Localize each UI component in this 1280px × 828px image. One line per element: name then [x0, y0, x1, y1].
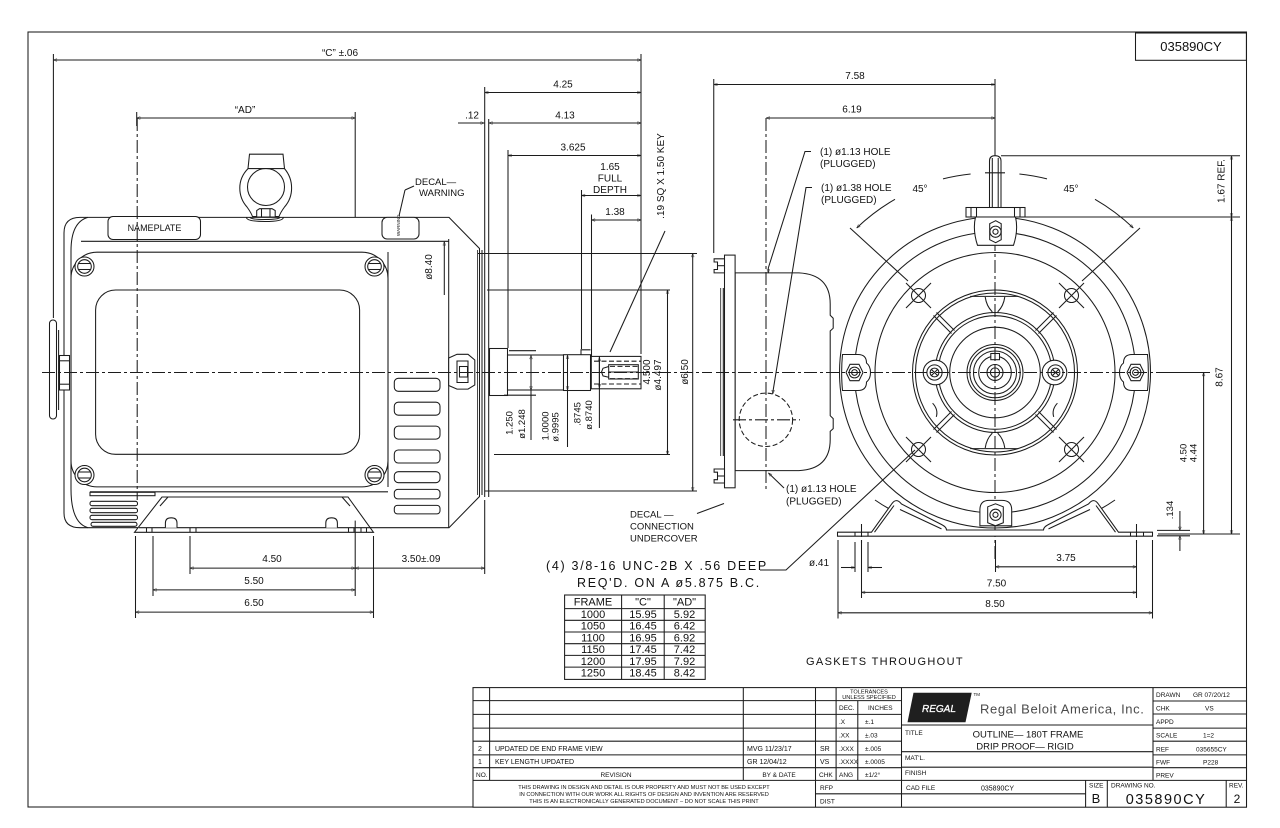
tolerance block — [836, 688, 901, 808]
svg-text:035890CY: 035890CY — [1126, 792, 1207, 808]
dim 45 deg left arc — [943, 174, 971, 179]
svg-text:.XXXX: .XXXX — [839, 759, 859, 766]
svg-text:“AD”: “AD” — [235, 105, 256, 116]
svg-text:TM: TM — [974, 692, 981, 697]
shaft keyway step — [581, 350, 591, 355]
diagonal 45 line NE — [1082, 228, 1140, 281]
side view frame band top line — [81, 240, 449, 242]
svg-text:.134: .134 — [1165, 501, 1176, 520]
cover screw bottom-right — [365, 466, 384, 485]
svg-text:ANG: ANG — [839, 772, 853, 779]
svg-text:REF: REF — [1156, 747, 1169, 754]
svg-text:FWF: FWF — [1156, 760, 1170, 767]
end view diagonal rib 45 NE — [1036, 313, 1057, 334]
logo cell rows — [902, 688, 1154, 781]
lifting eye bolt side view: tab — [248, 154, 285, 168]
svg-text:REGAL: REGAL — [922, 704, 956, 715]
svg-text:INCHES: INCHES — [868, 705, 893, 712]
dim 3.50+-.09 — [355, 567, 485, 569]
svg-text:DEPTH: DEPTH — [593, 185, 627, 196]
dim 1.67 REF — [1001, 155, 1240, 157]
svg-text:DIST: DIST — [820, 799, 835, 806]
svg-text:7.58: 7.58 — [845, 71, 865, 82]
shaft inner circles — [987, 365, 1003, 381]
svg-text:"AD": "AD" — [673, 597, 696, 609]
svg-text:17.95: 17.95 — [629, 656, 657, 668]
conduit box cover plate — [725, 255, 736, 488]
centerline main horizontal — [42, 372, 712, 374]
end view top chord line — [970, 295, 1018, 297]
end view top rib funnel — [985, 297, 1005, 313]
Regal logo parallelogram — [908, 693, 972, 723]
svg-text:DRIP PROOF— RIGID: DRIP PROOF— RIGID — [976, 741, 1074, 752]
base bolt bump right — [326, 518, 338, 528]
shaft keyway notch — [991, 354, 1000, 360]
svg-text:(1) ø1.38 HOLE: (1) ø1.38 HOLE — [821, 183, 892, 194]
svg-text:REVISION: REVISION — [600, 772, 631, 779]
cover opening — [96, 290, 360, 454]
svg-text:±.1: ±.1 — [865, 719, 874, 726]
svg-text:1150: 1150 — [581, 644, 605, 656]
plug screws X 45deg SW — [906, 437, 931, 462]
dim 6.50 bottom — [136, 611, 374, 613]
svg-text:P228: P228 — [1203, 760, 1219, 767]
lug T-bar plate — [966, 208, 1025, 218]
dim .12 (outside arrows) — [458, 122, 484, 124]
svg-text:GR 12/04/12: GR 12/04/12 — [747, 759, 787, 766]
decal warning box on body — [382, 217, 419, 239]
lifting eye bolt side view: base washer ellipse — [246, 217, 283, 221]
end view flange circle — [855, 232, 1136, 513]
svg-text:6.92: 6.92 — [674, 632, 695, 644]
svg-text:8.50: 8.50 — [985, 599, 1005, 610]
svg-text:.19 SQ X 1.50 KEY: .19 SQ X 1.50 KEY — [656, 133, 667, 219]
shaft collar — [490, 349, 508, 396]
diagonal 45 line NW — [850, 228, 908, 281]
bottom extension line right — [1158, 533, 1240, 535]
svg-text:6.19: 6.19 — [842, 105, 862, 116]
svg-text:4.13: 4.13 — [555, 111, 575, 122]
dim 5.50 bottom — [153, 589, 355, 591]
bearing slinger rings — [967, 345, 1023, 401]
dim C +-.06 — [53, 59, 641, 61]
svg-text:3.50±.09: 3.50±.09 — [402, 554, 441, 565]
svg-text:VS: VS — [820, 759, 830, 766]
svg-text:NAMEPLATE: NAMEPLATE — [128, 223, 182, 233]
dim dia 6.50 — [478, 253, 697, 255]
svg-text:1200: 1200 — [581, 656, 605, 668]
conduit box body — [735, 273, 833, 471]
lug bracket — [974, 217, 1016, 245]
svg-text:DRAWN: DRAWN — [1156, 692, 1181, 699]
dim 7.50 — [862, 591, 1137, 593]
svg-text:16.45: 16.45 — [629, 621, 657, 633]
lug T-bar bolt heads — [970, 208, 972, 218]
svg-text:UPDATED DE END FRAME VIEW: UPDATED DE END FRAME VIEW — [495, 746, 603, 753]
svg-text:.12: .12 — [465, 111, 479, 122]
dim 6.19 — [766, 117, 995, 119]
end view boss thick circle — [935, 313, 1055, 433]
drawing number box top right — [1136, 33, 1247, 60]
nameplate box — [108, 217, 201, 240]
conduit box clip top — [714, 259, 724, 273]
svg-text:APPD: APPD — [1156, 719, 1174, 726]
svg-text:8.67: 8.67 — [1215, 367, 1226, 387]
dim 7.58 — [714, 84, 995, 86]
base side view — [135, 497, 374, 532]
lifting eye bolt side view: ring hole — [248, 169, 285, 206]
svg-text:Regal Beloit America, Inc.: Regal Beloit America, Inc. — [980, 702, 1144, 717]
svg-text:DEC.: DEC. — [839, 705, 855, 712]
svg-text:ø6.50: ø6.50 — [680, 359, 691, 385]
svg-text:4.50: 4.50 — [262, 554, 282, 565]
shaft section dia 1.0000 — [564, 355, 591, 391]
svg-text:WARNING: WARNING — [396, 214, 401, 236]
svg-text:45°: 45° — [912, 184, 927, 195]
end view bottom chord line — [970, 448, 1018, 450]
svg-text:NO.: NO. — [476, 772, 488, 779]
bearing inner circle r45 — [950, 327, 1041, 418]
end view circle r120 — [875, 253, 1115, 493]
svg-text:UNDERCOVER: UNDERCOVER — [630, 534, 698, 545]
svg-text:SIZE: SIZE — [1089, 783, 1104, 790]
svg-text:REQ'D. ON A ø5.875 B.C.: REQ'D. ON A ø5.875 B.C. — [577, 576, 761, 590]
svg-text:ø.41: ø.41 — [809, 558, 829, 569]
hex bolt left on flange pad — [842, 355, 871, 391]
svg-text:035890CY: 035890CY — [1160, 39, 1222, 54]
bottom row cells — [1085, 780, 1087, 807]
ODE shaft collar — [60, 356, 70, 391]
plug screws X 45deg NW — [906, 283, 931, 308]
svg-text:8.42: 8.42 — [674, 668, 695, 680]
dim 4.500/4.497 — [487, 289, 670, 291]
svg-text:±1/2°: ±1/2° — [865, 771, 881, 779]
dim 8.50 — [838, 612, 1153, 614]
side view frame band bottom line — [90, 491, 388, 493]
svg-text:(PLUGGED): (PLUGGED) — [821, 195, 877, 206]
svg-text:CHK: CHK — [819, 772, 833, 779]
lug stem — [990, 156, 1002, 208]
lug clamp nut hex — [990, 221, 1002, 243]
end view diagonal rib 45 SW — [934, 412, 955, 433]
cover screw bottom-left — [75, 466, 94, 485]
dim 3.625 — [508, 155, 641, 157]
svg-text:ø1.248: ø1.248 — [517, 409, 528, 439]
hex bolt right on flange pad — [1120, 355, 1149, 391]
svg-text:REV.: REV. — [1229, 783, 1244, 790]
right column cells — [1153, 701, 1247, 768]
end view diagonal rib 45 SE — [1036, 412, 1057, 433]
base plate edge dark band — [90, 492, 155, 495]
svg-text:(1) ø1.13 HOLE: (1) ø1.13 HOLE — [820, 147, 891, 158]
svg-text:DECAL —: DECAL — — [630, 510, 674, 521]
svg-text:1.65: 1.65 — [600, 162, 620, 173]
svg-text:1100: 1100 — [581, 632, 605, 644]
svg-text:±.0005: ±.0005 — [865, 759, 885, 766]
end view vertical centerline — [994, 150, 996, 560]
svg-text:THIS DRAWING IN DESIGN AND DET: THIS DRAWING IN DESIGN AND DETAIL IS OUR… — [518, 785, 770, 791]
DE face plate outer lines — [481, 250, 483, 495]
svg-text:(1) ø1.13 HOLE: (1) ø1.13 HOLE — [786, 484, 857, 495]
svg-text:6.42: 6.42 — [674, 621, 695, 633]
cover screw top-left — [75, 257, 94, 276]
shaft section dia 1.250 — [508, 355, 564, 390]
louvers right panel — [394, 378, 440, 514]
svg-text:1.38: 1.38 — [605, 207, 625, 218]
svg-text:(4) 3/8-16 UNC-2B X .56 DEEP: (4) 3/8-16 UNC-2B X .56 DEEP — [546, 559, 768, 573]
conduit box clip bottom — [714, 469, 724, 483]
key leader line — [610, 231, 665, 352]
end view face notch lower-right — [1053, 403, 1057, 417]
svg-text:(PLUGGED): (PLUGGED) — [786, 497, 842, 508]
svg-text:KEY LENGTH UPDATED: KEY LENGTH UPDATED — [495, 759, 574, 766]
svg-text:5.50: 5.50 — [244, 576, 264, 587]
dim .8745/.8740 — [598, 358, 600, 388]
svg-text:"C": "C" — [635, 597, 651, 609]
plug screws X 45deg SE — [1059, 437, 1084, 462]
svg-text:035655CY: 035655CY — [1196, 747, 1227, 754]
svg-text:45°: 45° — [1063, 184, 1078, 195]
svg-text:1.250: 1.250 — [505, 411, 516, 435]
plug screws X 45deg NE — [1059, 283, 1084, 308]
base stamped profile — [838, 501, 1153, 537]
plugged hole 1.38 dashed circle — [739, 393, 792, 446]
base bend inner lines — [875, 506, 1116, 533]
svg-text:1=2: 1=2 — [1203, 733, 1214, 740]
svg-text:1250: 1250 — [581, 668, 605, 680]
side view motor body outline — [64, 217, 480, 527]
svg-text:GR 07/20/12: GR 07/20/12 — [1193, 692, 1230, 699]
shaft end section dia .8745 — [591, 356, 641, 388]
dim 1.65 FULL DEPTH — [582, 195, 642, 197]
svg-text:CAD FILE: CAD FILE — [906, 785, 936, 792]
conduit box vertical centerline — [765, 118, 767, 489]
dim .134 — [1157, 529, 1190, 531]
phillips screw right 3 o'clock pad — [1042, 360, 1067, 385]
svg-text:3.625: 3.625 — [560, 143, 585, 154]
bottom clamp bolt hex — [988, 504, 1004, 526]
svg-text:DECAL—: DECAL— — [415, 177, 457, 188]
svg-text:5.92: 5.92 — [674, 609, 695, 621]
side view right face inner vertical — [448, 239, 450, 528]
svg-text:ø.8740: ø.8740 — [584, 400, 595, 430]
svg-text:035890CY: 035890CY — [981, 786, 1014, 793]
svg-text:.XXX: .XXX — [839, 746, 854, 753]
svg-text:BY & DATE: BY & DATE — [762, 772, 796, 779]
svg-text:7.42: 7.42 — [674, 644, 695, 656]
svg-text:1: 1 — [478, 759, 482, 766]
svg-text:7.92: 7.92 — [674, 656, 695, 668]
dim 1.250/1.248 — [530, 356, 532, 391]
ODE hub steps — [58, 330, 60, 410]
svg-text:VS: VS — [1205, 706, 1214, 713]
svg-text:PREV: PREV — [1156, 773, 1174, 780]
dim 45 deg right arc — [1019, 174, 1047, 179]
svg-text:GASKETS THROUGHOUT: GASKETS THROUGHOUT — [806, 656, 964, 668]
svg-text:THIS IS AN ELECTRONICALLY GENE: THIS IS AN ELECTRONICALLY GENERATED DOCU… — [529, 799, 759, 805]
base bolt bump left — [165, 518, 177, 528]
svg-text:DRAWING NO.: DRAWING NO. — [1111, 783, 1156, 790]
svg-text:±.03: ±.03 — [865, 733, 878, 740]
dim 1.0000/.9995 — [567, 355, 569, 390]
svg-text:SCALE: SCALE — [1156, 733, 1178, 740]
svg-text:FRAME: FRAME — [574, 597, 613, 609]
lug pin cross bar — [985, 172, 1005, 174]
svg-text:CONNECTION: CONNECTION — [630, 522, 694, 533]
base slot ticks right — [1130, 532, 1132, 536]
cover plate front — [71, 252, 388, 487]
base gusset ticks — [160, 497, 168, 506]
svg-text:1000: 1000 — [581, 609, 605, 621]
svg-text:ø4.497: ø4.497 — [653, 359, 664, 391]
phillips screw left 9 o'clock pad — [923, 360, 948, 385]
svg-text:.8745: .8745 — [573, 402, 584, 426]
dim 4.25 — [485, 92, 641, 94]
svg-text:“C” ±.06: “C” ±.06 — [322, 48, 358, 59]
end view diagonal rib 45 NW — [934, 313, 955, 334]
end view face circle double — [913, 290, 1078, 455]
dim 8.67 — [1231, 217, 1233, 534]
side view inner seam arc left — [71, 217, 88, 527]
revision table rows — [473, 688, 1247, 808]
centerline side view vertical — [136, 118, 138, 500]
svg-text:OUTLINE— 180T FRAME: OUTLINE— 180T FRAME — [973, 729, 1084, 740]
svg-text:CHK: CHK — [1156, 706, 1170, 713]
svg-text:7.50: 7.50 — [987, 579, 1007, 590]
svg-text:B: B — [1092, 791, 1101, 806]
svg-text:ø.9995: ø.9995 — [551, 412, 562, 442]
dim 4.50 bottom — [190, 567, 355, 569]
svg-text:RFP: RFP — [820, 785, 833, 792]
svg-text:15.95: 15.95 — [629, 609, 657, 621]
svg-text:UNLESS SPECIFIED: UNLESS SPECIFIED — [842, 695, 895, 701]
shaft ext stubs for 1.250 — [509, 350, 536, 352]
shaft circle — [979, 356, 1012, 389]
svg-text:TITLE: TITLE — [905, 730, 923, 737]
base pad slot ticks — [146, 528, 148, 533]
svg-text:4.500: 4.500 — [642, 359, 653, 384]
svg-text:FINISH: FINISH — [905, 770, 927, 777]
end view horizontal centerline — [716, 372, 1172, 374]
RFP / DIST cells — [816, 793, 902, 795]
svg-text:(PLUGGED): (PLUGGED) — [820, 159, 876, 170]
title block outer frame — [473, 688, 1247, 808]
end view outer shell circle — [840, 217, 1151, 528]
svg-text:3.75: 3.75 — [1056, 553, 1076, 564]
bottom clamp bolt pad — [980, 500, 1012, 525]
svg-text:16.95: 16.95 — [629, 632, 657, 644]
ODE hub outer — [50, 320, 57, 419]
svg-text:±.005: ±.005 — [865, 746, 882, 753]
dim 1.38 — [592, 219, 642, 221]
svg-text:1.67 REF.: 1.67 REF. — [1217, 159, 1228, 203]
cover screw top-right — [365, 257, 384, 276]
svg-text:.X: .X — [839, 719, 846, 726]
svg-text:MAT'L.: MAT'L. — [905, 755, 925, 762]
side view cover plate right edge — [387, 252, 389, 487]
lifting eye bolt side view: outer ring body — [240, 169, 292, 217]
svg-text:.XX: .XX — [839, 733, 850, 740]
svg-text:WARNING: WARNING — [419, 188, 465, 199]
DE hex bolt right mid — [449, 354, 475, 389]
svg-text:ø8.40: ø8.40 — [424, 254, 435, 280]
svg-text:2: 2 — [478, 746, 482, 753]
base pad line — [139, 527, 371, 529]
end view bottom rib funnel — [985, 432, 1005, 448]
shaft tapped hole detail — [609, 365, 639, 379]
dim 4.50/4.44 — [1159, 372, 1210, 374]
conduit box gasket lines — [720, 288, 722, 456]
svg-text:17.45: 17.45 — [629, 644, 657, 656]
svg-text:2: 2 — [1234, 792, 1241, 806]
dim 3.75 — [996, 566, 1137, 568]
dim 4.13 — [489, 122, 641, 124]
end view face notch lower-left — [933, 403, 937, 417]
dim AD — [137, 117, 356, 119]
shaft key hidden lines — [594, 360, 641, 362]
svg-text:1050: 1050 — [581, 621, 605, 633]
DE slinger plate double line — [484, 119, 486, 497]
base skirt arcs — [875, 500, 946, 529]
svg-text:18.45: 18.45 — [629, 668, 657, 680]
louvers left bottom — [90, 501, 138, 526]
svg-text:4.25: 4.25 — [553, 80, 573, 91]
svg-text:4.44: 4.44 — [1189, 444, 1200, 463]
svg-text:MVG 11/23/17: MVG 11/23/17 — [747, 746, 792, 753]
base slot ticks left — [854, 532, 856, 536]
lifting eye bolt side view: nut — [257, 209, 276, 217]
svg-text:SR: SR — [820, 746, 830, 753]
svg-text:IN CONNECTION WITH OUR WORK AL: IN CONNECTION WITH OUR WORK ALL RIGHTS O… — [519, 792, 769, 798]
svg-text:FULL: FULL — [598, 174, 623, 185]
svg-text:6.50: 6.50 — [244, 598, 264, 609]
shaft end extension line — [640, 54, 642, 354]
